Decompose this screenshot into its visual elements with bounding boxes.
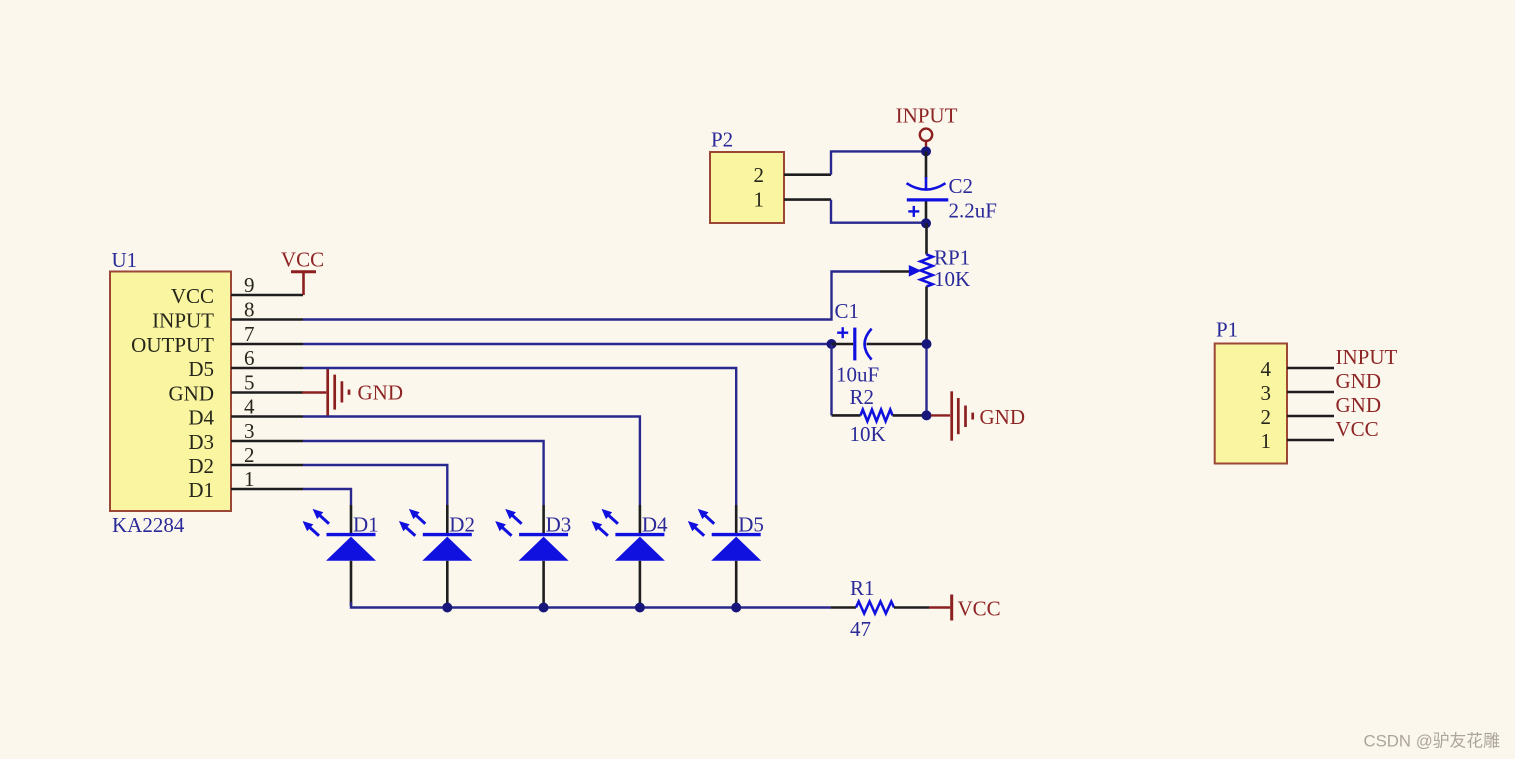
junction on LED rail xyxy=(539,603,549,613)
svg-text:C2: C2 xyxy=(949,174,974,198)
junction node R2 right xyxy=(922,410,932,420)
svg-text:8: 8 xyxy=(244,298,255,322)
resistor R2 10K xyxy=(832,385,923,446)
capacitor C2 2.2uF xyxy=(907,151,997,223)
junction node C2/RP1 xyxy=(921,218,931,228)
svg-text:2: 2 xyxy=(754,163,765,187)
P2 pin 2 xyxy=(754,163,832,187)
wire U1 pin 2 to LED D2 xyxy=(303,465,447,505)
svg-text:1: 1 xyxy=(244,467,255,491)
svg-text:D2: D2 xyxy=(449,513,475,537)
LED D2 xyxy=(399,505,475,606)
junction node INPUT xyxy=(921,146,931,156)
svg-text:C1: C1 xyxy=(835,299,860,323)
P1 pin 2 xyxy=(1261,405,1335,429)
svg-text:10uF: 10uF xyxy=(836,363,879,387)
net INPUT terminal xyxy=(896,104,958,148)
U1 pin 4 xyxy=(231,395,303,419)
svg-text:VCC: VCC xyxy=(958,597,1001,621)
svg-text:KA2284: KA2284 xyxy=(112,513,185,537)
svg-text:P1: P1 xyxy=(1216,318,1238,342)
svg-text:GND: GND xyxy=(1336,393,1382,417)
svg-text:D2: D2 xyxy=(188,454,214,478)
svg-text:3: 3 xyxy=(244,419,255,443)
junction node A (OUTPUT/C1/R2) xyxy=(827,339,837,349)
svg-text:10K: 10K xyxy=(850,422,886,446)
wire P2 pin 2 to INPUT node xyxy=(831,151,922,174)
connector P2 body xyxy=(710,128,784,224)
U1 pin 6 xyxy=(231,346,303,370)
capacitor C1 10uF xyxy=(832,299,923,386)
svg-text:INPUT: INPUT xyxy=(152,309,214,333)
P1 pin 4 xyxy=(1261,357,1335,381)
wire P2 pin 1 to C2 bottom node xyxy=(831,200,922,223)
svg-text:7: 7 xyxy=(244,322,255,346)
svg-text:GND: GND xyxy=(358,380,404,404)
svg-text:D5: D5 xyxy=(738,513,764,537)
svg-text:VCC: VCC xyxy=(281,248,324,272)
svg-text:10K: 10K xyxy=(934,267,970,291)
svg-text:D3: D3 xyxy=(188,430,214,454)
junction on LED rail xyxy=(635,603,645,613)
svg-text:RP1: RP1 xyxy=(934,245,970,269)
resistor R1 47 xyxy=(831,576,929,641)
svg-text:VCC: VCC xyxy=(1336,417,1379,441)
svg-text:U1: U1 xyxy=(112,248,138,272)
svg-text:5: 5 xyxy=(244,371,255,395)
svg-text:4: 4 xyxy=(244,395,255,419)
wire U1 pin 3 to LED D3 xyxy=(303,441,544,505)
connector P1 body xyxy=(1215,318,1287,464)
U1 pin 9 xyxy=(231,273,303,297)
wire U1 pin 7 (OUTPUT) to node A xyxy=(303,343,832,345)
svg-text:47: 47 xyxy=(850,617,871,641)
junction node C1 right xyxy=(922,339,932,349)
svg-text:R2: R2 xyxy=(850,385,875,409)
svg-text:R1: R1 xyxy=(850,576,875,600)
svg-text:D4: D4 xyxy=(642,513,668,537)
ground GND (R2) xyxy=(931,391,1025,440)
wire U1 pin 4 to LED D4 xyxy=(303,417,640,506)
U1 pin 3 xyxy=(231,419,303,443)
svg-text:D3: D3 xyxy=(546,513,572,537)
svg-text:INPUT: INPUT xyxy=(1336,345,1398,369)
svg-text:1: 1 xyxy=(1261,429,1272,453)
wire LED anode rail xyxy=(351,602,831,608)
junction on LED rail xyxy=(731,603,741,613)
svg-text:2: 2 xyxy=(244,443,255,467)
potentiometer RP1 10K xyxy=(880,223,970,344)
svg-text:VCC: VCC xyxy=(171,284,214,308)
svg-text:D5: D5 xyxy=(188,357,214,381)
wire U1 pin 1 to LED D1 xyxy=(303,489,351,505)
LED D5 xyxy=(688,505,764,606)
svg-text:4: 4 xyxy=(1261,357,1272,381)
IC U1 KA2284 body xyxy=(110,248,231,537)
svg-text:2: 2 xyxy=(1261,405,1272,429)
svg-text:D1: D1 xyxy=(188,478,214,502)
P2 pin 1 xyxy=(754,188,832,212)
P1 pin 3 xyxy=(1261,381,1335,405)
svg-text:P2: P2 xyxy=(711,128,733,152)
svg-text:GND: GND xyxy=(1336,369,1382,393)
svg-text:GND: GND xyxy=(980,405,1026,429)
wire U1 pin 8 (INPUT) to RP1 wiper xyxy=(303,272,880,320)
svg-text:GND: GND xyxy=(169,382,215,406)
svg-text:OUTPUT: OUTPUT xyxy=(131,333,214,357)
svg-text:9: 9 xyxy=(244,273,255,297)
svg-text:D1: D1 xyxy=(353,513,379,537)
U1 pin 1 xyxy=(231,467,303,491)
wire C1 right node down to R2 right node xyxy=(925,344,927,415)
U1 pin 8 xyxy=(231,298,303,322)
wire U1 pin 6 to LED D5 xyxy=(303,368,736,505)
wire node A down to R2 xyxy=(830,344,832,415)
U1 pin 7 xyxy=(231,322,303,346)
svg-text:1: 1 xyxy=(754,188,765,212)
LED D1 xyxy=(303,505,379,606)
svg-text:3: 3 xyxy=(1261,381,1272,405)
power VCC (U1 pin 9) xyxy=(281,248,324,296)
LED D4 xyxy=(592,505,669,606)
svg-text:CSDN @驴友花雕: CSDN @驴友花雕 xyxy=(1364,732,1501,751)
svg-text:6: 6 xyxy=(244,346,255,370)
LED D3 xyxy=(495,505,571,606)
U1 pin 2 xyxy=(231,443,303,467)
junction on LED rail xyxy=(442,603,452,613)
ground GND (U1 pin 5) xyxy=(302,368,403,415)
U1 pin 5 xyxy=(231,371,303,395)
power VCC (R1) xyxy=(929,595,1001,621)
svg-text:2.2uF: 2.2uF xyxy=(949,198,997,222)
svg-text:INPUT: INPUT xyxy=(896,104,958,128)
P1 pin 1 xyxy=(1261,429,1335,453)
svg-text:D4: D4 xyxy=(188,406,214,430)
